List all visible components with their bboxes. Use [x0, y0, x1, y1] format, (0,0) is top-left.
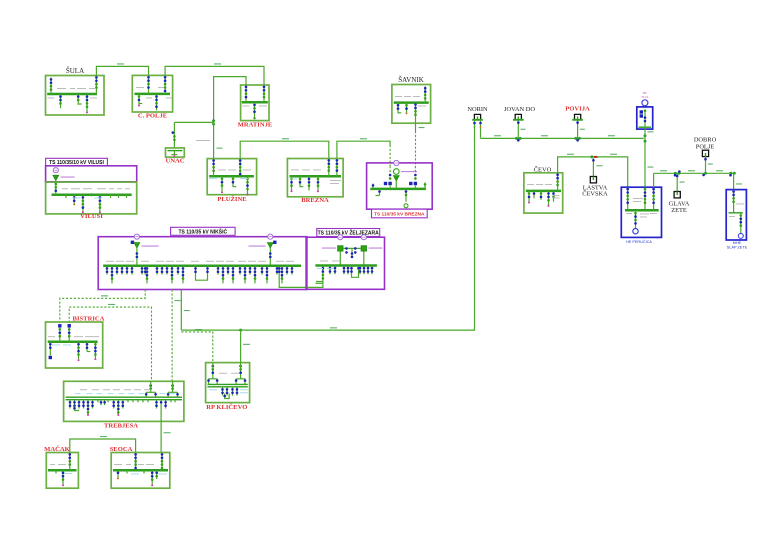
wire dashed NIKŠIĆ to BISTRICA	[60, 290, 145, 323]
wire transformer link ŽELJEZARA	[343, 247, 361, 254]
station symbol POVIJA	[572, 114, 583, 119]
generator circle HE PIVA	[642, 100, 648, 106]
feeder bay SEOCA out 2	[151, 470, 154, 486]
substation box RP KLIČEVO	[206, 363, 250, 403]
svg-text:MRATINJE: MRATINJE	[238, 122, 273, 129]
label HE PIVA	[641, 91, 649, 99]
station symbol JOVAN DO	[513, 114, 524, 119]
busbar MRATINJE	[242, 101, 268, 104]
feeder bay ŠULA out 2	[77, 94, 82, 105]
feeder bay MRATINJE incomer 2	[263, 85, 266, 102]
node junction SLAP tap	[729, 172, 736, 177]
svg-text:PIVA: PIVA	[641, 95, 649, 99]
wire junction to UNAC	[172, 122, 214, 147]
label DOBRO POLJE	[694, 137, 717, 151]
feeder JOVAN DO to bus	[517, 120, 526, 139]
node junction VILUSI busbar	[90, 193, 93, 196]
feeder bay BISTRICA incomer 1	[58, 324, 61, 342]
svg-text:RP KLIČEVO: RP KLIČEVO	[206, 403, 247, 411]
substation box MRATINJE	[241, 85, 269, 121]
node junction HE PIVA bus cross	[644, 134, 647, 142]
bay labels C.POLJE	[136, 87, 172, 98]
label GLAVA ZETE	[669, 201, 690, 215]
generator unit feeder PERUĆICA	[633, 210, 638, 234]
busbar TS BREZNA 35kV	[370, 188, 426, 191]
feeder bay ČEVO out 2	[533, 191, 536, 198]
svg-text:NORIN: NORIN	[467, 106, 488, 113]
busbar ŠULA 35kV	[47, 93, 97, 96]
generator box HE PIVA	[637, 107, 653, 129]
svg-text:SEOCA: SEOCA	[110, 446, 133, 453]
voltage clock NIKŠIĆ T1	[134, 234, 139, 239]
svg-text:TREBJESA: TREBJESA	[104, 423, 138, 430]
svg-text:HE PERUĆICA: HE PERUĆICA	[626, 239, 652, 244]
generator unit feeder SLAP	[738, 213, 743, 239]
wire 35kV PLUŽINE to BREZNA	[240, 138, 329, 158]
feeder bay MAČAK incomer	[69, 453, 72, 471]
busbar C. POLJE	[135, 93, 171, 96]
substation box C. POLJE	[132, 75, 172, 112]
feeder bays TREBJESA right	[155, 400, 167, 409]
voltage clock ŽELJEZARA T1	[338, 235, 343, 240]
label box TS 110/35 kV NIKŠIĆ	[171, 227, 236, 235]
feeder TREBJESA deep 1	[73, 407, 79, 411]
wire to MHE SLAP ZETE	[734, 173, 742, 189]
wire HE PIVA to grid	[645, 129, 654, 187]
feeder bay MAČAK out	[62, 470, 65, 486]
feeder bay VILUSI out 1	[73, 195, 76, 206]
substation box ČEVO	[524, 173, 563, 213]
wire 35kV ŠULA to C.POLJE	[96, 63, 148, 75]
wire ŠAVNIK to TS BREZNA (dashed)	[416, 123, 425, 166]
transformer T1 NIKŠIĆ	[131, 241, 159, 266]
substation box MAČAK	[46, 453, 78, 489]
wire NIKŠIĆ to 35kV line corner	[181, 290, 190, 331]
feeder NIKŠIĆ dashed out to BISTRICA	[144, 266, 147, 275]
svg-text:ŠULA: ŠULA	[66, 67, 84, 75]
wire TREBJESA to SEOCA	[161, 421, 171, 452]
wire 35kV C.POLJE to MRATINJE	[165, 63, 264, 85]
svg-text:JOVAN DO: JOVAN DO	[504, 106, 535, 113]
svg-text:DOBRO: DOBRO	[694, 137, 717, 144]
bay labels BISTRICA	[48, 336, 99, 345]
node junction line tap to RP KLIČEVO	[239, 329, 250, 363]
busbar SEOCA	[113, 469, 168, 472]
feeder bay PLUŽINE out 2	[232, 176, 237, 187]
svg-text:BISTRICA: BISTRICA	[73, 316, 105, 323]
feeder bay BREZNA incomer 1	[328, 159, 331, 177]
svg-text:ČEVSKA: ČEVSKA	[582, 190, 608, 198]
busbar MHE SLAP ZETE	[729, 212, 743, 214]
wire dashed BISTRICA to TREBJESA	[69, 304, 151, 381]
feeder bay ŠULA out 3	[86, 94, 89, 113]
node junction JOVAN DO	[515, 137, 522, 142]
feeder bay BISTRICA incomer 2	[68, 324, 71, 342]
bay labels BREZNA	[290, 170, 341, 184]
busbar NIKŠIĆ 35kV	[103, 265, 301, 268]
feeder bay RP KLIČEVO incomer 1	[207, 363, 218, 385]
station symbol GLAVA ZETE	[674, 192, 680, 198]
svg-text:TS 110/35 kV ŽELJEZARA: TS 110/35 kV ŽELJEZARA	[318, 229, 380, 237]
feeder bay VILUSI out 3	[99, 195, 102, 213]
busbar VILUSI	[52, 194, 132, 197]
feeder RP KLIČEVO U loop	[223, 394, 229, 399]
feeder bay BREZNA out 4	[317, 176, 320, 192]
bay labels VILUSI	[62, 188, 130, 198]
node junction GLAVA ZETE tap	[674, 170, 681, 176]
svg-text:PLUŽINE: PLUŽINE	[217, 195, 247, 203]
feeder bay SEOCA incomer 1	[134, 453, 137, 471]
busbar HE PIVA	[639, 126, 652, 128]
feeder bay ŽELJEZARA left tie	[315, 282, 323, 284]
feeder bay TREBJESA incomer 2	[167, 381, 179, 397]
bay labels SLAP	[729, 204, 744, 217]
svg-text:POLJE: POLJE	[696, 144, 715, 151]
transformer station UNAC	[166, 148, 185, 157]
label LASTVA ČEVSKA	[582, 185, 608, 198]
substation box BREZNA	[287, 159, 343, 197]
svg-text:BREZNA: BREZNA	[301, 197, 329, 204]
bay labels TREBJESA	[75, 389, 176, 394]
feeder HE PIVA unit	[640, 110, 647, 130]
feeder bay PERUĆICA incomer 2	[644, 187, 647, 210]
wire ČEVO to HE PERUĆICA	[558, 154, 628, 188]
substation box BISTRICA	[46, 322, 103, 368]
feeder bay MRATINJE incomer 1	[245, 85, 248, 102]
bay labels MRATINJE	[243, 105, 268, 108]
feeder bay ŠAVNIK line out to TS BREZNA	[414, 103, 417, 124]
feeder bay ŽELJEZARA loop U	[350, 266, 360, 278]
wire main 35kV bus	[481, 135, 644, 138]
feeder bay BREZNA incomer 2	[336, 159, 339, 177]
feeder bay PERUĆICA incomer 1	[626, 187, 629, 210]
feeder bay ČEVO incomer	[556, 173, 559, 191]
feeder bay ŠULA out 1	[59, 94, 62, 108]
node junction POVIJA	[574, 137, 581, 142]
busbar MAČAK	[48, 469, 77, 472]
substation box TS 110/35 kV BREZNA	[367, 163, 433, 209]
double busbar RP KLIČEVO	[208, 384, 248, 386]
feeder bay ČEVO out 4	[547, 191, 550, 207]
feeder bay ŠULA left incomer	[50, 78, 53, 95]
wire SEOCA to MAČAK	[70, 436, 136, 453]
feeder NIKŠIĆ tie to ŽELJEZARA	[278, 266, 324, 288]
wire NORIN long line to RP KLIČEVO area	[181, 126, 474, 330]
feeder bay BREZNA out 2	[299, 176, 304, 187]
bay labels NIKŠIĆ row	[106, 260, 294, 263]
feeder bay BISTRICA out 1	[49, 342, 52, 359]
busbar ČEVO	[526, 190, 561, 193]
feeder bays TREBJESA mid	[100, 400, 124, 409]
svg-text:VILUSI: VILUSI	[80, 213, 103, 220]
svg-text:ŠAVNIK: ŠAVNIK	[398, 76, 424, 84]
svg-text:MAČAK: MAČAK	[44, 445, 71, 453]
station symbol DOBRO POLJE	[702, 150, 708, 156]
substation box ŠULA	[46, 76, 105, 116]
label box TS 110/35 kV ŽELJEZARA	[317, 229, 380, 237]
feeder stubs SEOCA	[127, 470, 144, 473]
feeder bay TS BREZNA out with earth	[376, 189, 381, 196]
bay labels MAČAK	[50, 464, 72, 474]
feeder bay BISTRICA out 4	[94, 342, 97, 360]
busbar ŽELJEZARA 35kV	[315, 264, 377, 267]
feeder bay C.POLJE out 2	[155, 94, 158, 111]
wire right 35kV bus	[654, 170, 734, 187]
svg-text:C. POLJE: C. POLJE	[138, 113, 168, 120]
substation box TS NIKŠIĆ	[98, 237, 307, 290]
svg-text:TS 110/35 kV BREZNA: TS 110/35 kV BREZNA	[374, 212, 425, 218]
feeder TREBJESA out to SEOCA	[160, 400, 163, 422]
bay labels ŠAVNIK	[395, 96, 426, 106]
feeder bay RP KLIČEVO incomer 2	[235, 363, 247, 385]
bay labels PERUĆICA	[626, 198, 657, 217]
feeder bay VILUSI out 2	[82, 195, 85, 213]
bay labels PLUŽINE	[210, 170, 252, 180]
feeder bay TS BREZNA incomer 1	[384, 166, 392, 189]
feeder stubs VILUSI right	[66, 195, 127, 198]
svg-text:POVIJA: POVIJA	[565, 106, 590, 113]
feeder bay SEOCA out 1	[117, 470, 120, 479]
feeder bay SLAP incomer	[732, 190, 735, 213]
svg-text:TS 110/35 kV NIKŠIĆ: TS 110/35 kV NIKŠIĆ	[178, 228, 227, 236]
station symbol NORIN	[472, 114, 483, 119]
node junction LASTVA tap	[590, 155, 597, 158]
feeder NORIN to SW line	[473, 120, 476, 128]
feeder bay TS BREZNA right corner	[424, 183, 427, 189]
feeder bay BISTRICA out 3	[86, 342, 91, 352]
transformer T1 TS BREZNA	[393, 169, 417, 189]
feeder bay BISTRICA out 2	[77, 342, 80, 361]
busbar ŠAVNIK	[394, 101, 429, 104]
substation box ŠAVNIK	[392, 85, 431, 124]
transformer T1 VILUSI	[53, 175, 75, 181]
busbar BISTRICA	[48, 340, 98, 343]
feeder bay PLUŽINE incomer 2	[239, 159, 242, 177]
busbar BREZNA	[290, 175, 342, 178]
feeder bay ŠAVNIK out 2	[405, 103, 408, 115]
feeder GLAVA ZETE	[676, 173, 685, 191]
busbar PLUŽINE	[209, 175, 254, 178]
feeder POVIJA to bus	[576, 120, 585, 139]
bay labels SEOCA	[114, 464, 167, 474]
double busbar TREBJESA	[66, 397, 183, 400]
feeder bay ŠAVNIK incomer	[424, 86, 427, 102]
feeder bay ČEVO out 3	[540, 191, 543, 200]
feeder bay C.POLJE incomer 1	[147, 75, 150, 94]
feeder bays NIKŠIĆ	[106, 266, 109, 275]
wire dashed NIKŠIĆ to TREBJESA	[172, 290, 180, 382]
feeder bay ŠULA right incomer to line	[95, 76, 98, 95]
feeder bay ČEVO out 1	[528, 191, 531, 204]
feeder bay TS BREZNA left	[372, 184, 375, 189]
feeder bays ŽELJEZARA	[329, 266, 332, 275]
feeder bay PLUŽINE out 1	[221, 176, 224, 193]
voltage clock ŽELJEZARA T2	[361, 235, 366, 240]
wire 35kV BREZNA to TS BREZNA (dashed section)	[337, 138, 390, 166]
feeder TREBJESA deep 2	[87, 407, 90, 417]
feeder bay PERUĆICA incomer 3	[652, 187, 655, 210]
feeder bay SEOCA out 3	[155, 470, 158, 479]
feeder bay NIKŠIĆ loop U	[194, 266, 209, 280]
transformer T1 ŽELJEZARA	[322, 246, 343, 266]
node junction DOBRO POLJE tap	[702, 172, 707, 177]
busbar ticks TREBJESA	[98, 400, 175, 403]
svg-text:SLAP ZETE: SLAP ZETE	[727, 245, 748, 249]
svg-text:ČEVO: ČEVO	[534, 166, 552, 174]
feeder bay PLUŽINE incomer 1	[212, 159, 215, 177]
generator box HE PERUĆICA	[621, 187, 661, 237]
substation box VILUSI 35kV section	[46, 182, 137, 214]
busbar HE PERUĆICA	[625, 209, 659, 212]
feeder bay C.POLJE incomer 2	[164, 75, 167, 94]
wire junction to MRATINJE	[214, 77, 246, 123]
feeder middle ŽELJEZARA	[351, 248, 354, 258]
wire junction to PLUŽINE	[214, 122, 223, 158]
feeder DOBRO POLJE to bus	[704, 157, 713, 174]
feeder bay C.POLJE out 1	[138, 94, 143, 107]
feeder bay TS BREZNA incomer 2 from ŠAVNIK	[409, 166, 417, 189]
wire dashed corner to RP KLIČEVO	[181, 329, 213, 363]
substation box TREBJESA	[64, 381, 184, 421]
substation box SEOCA	[111, 453, 170, 489]
transformer T2 NIKŠIĆ	[249, 241, 277, 266]
voltage clock NIKŠIĆ T2	[268, 234, 273, 239]
feeder bay ŠAVNIK out 1	[397, 103, 402, 114]
feeder LASTVA ČEVSKA	[592, 158, 602, 176]
svg-text:UNAC: UNAC	[165, 158, 184, 165]
substation box VILUSI 110kV section	[46, 166, 137, 182]
voltage clock TS BREZNA	[394, 160, 399, 165]
feeder bay TS BREZNA generator out	[404, 189, 408, 208]
feeder bay BREZNA out 1	[290, 176, 293, 192]
generator box MHE SLAP ZETE	[726, 190, 746, 240]
station symbol LASTVA ČEVSKA	[590, 177, 596, 183]
feeder bay VILUSI transformer infeed	[55, 181, 58, 195]
feeder bay MRATINJE transformer out	[253, 102, 256, 119]
substation box PLUŽINE	[207, 159, 256, 195]
svg-text:ZETE: ZETE	[671, 207, 687, 214]
bay labels RP KLIČEVO	[209, 373, 248, 393]
bay labels ŠULA	[48, 88, 98, 98]
feeder bays TREBJESA cluster left	[69, 400, 94, 409]
transformer T2 ŽELJEZARA	[361, 246, 383, 266]
node junction J1	[212, 119, 215, 125]
label MHE SLAP ZETE	[727, 241, 748, 249]
voltage clock VILUSI	[53, 168, 58, 173]
feeder bays RP KLIČEVO out	[221, 387, 238, 396]
feeder bay BREZNA out 3	[308, 176, 311, 190]
feeder TREBJESA deep 3	[117, 407, 120, 417]
substation box TS ŽELJEZARA	[306, 237, 384, 289]
feeder bay TREBJESA incomer 1	[145, 381, 157, 397]
label box TS 110/35 kV BREZNA	[372, 209, 428, 218]
feeder bay PLUŽINE out 3	[246, 176, 249, 195]
feeder stub MAČAK	[55, 470, 57, 473]
bay labels ČEVO	[527, 184, 560, 198]
label box TS 110/35/10 kV VILUSI	[46, 158, 108, 166]
feeder bay ČEVO out 5	[552, 191, 555, 202]
feeder NORIN to 35kV bus	[479, 120, 482, 139]
bay labels ŽELJEZARA	[317, 261, 340, 269]
feeder bay SEOCA incomer 2	[161, 453, 164, 471]
